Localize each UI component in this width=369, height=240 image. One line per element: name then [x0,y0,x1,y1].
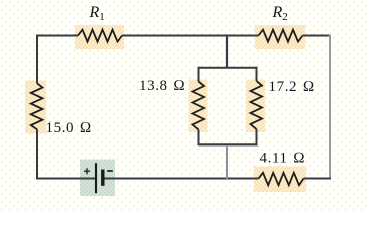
battery short plate (-) [101,170,104,186]
resistor 13.8 ohm [193,82,205,130]
svg-text:13.8 Ω: 13.8 Ω [139,78,185,94]
parallel box left branch lower [198,130,200,146]
highlight box R1 [75,25,124,49]
battery long plate (+) [95,163,97,193]
parallel box right branch upper [256,67,258,81]
wire left lower [36,129,38,179]
parallel box bottom rail [198,143,258,145]
resistor R1 [78,30,122,42]
wire bottom-middle (battery to 4.11) [103,178,259,180]
svg-text:17.2 Ω: 17.2 Ω [269,79,315,95]
wire top-right (R2 to right corner) [303,35,332,37]
resistor 15.0 ohm [31,83,43,129]
highlight box 17.2 ohm [246,80,265,133]
wire top-middle (R1 to R2) [122,35,259,37]
highlight box 4.11 ohm [254,167,306,193]
wire left upper [36,35,38,84]
svg-text:15.0 Ω: 15.0 Ω [46,120,92,136]
parallel box bottom rail shadow [199,145,259,147]
parallel box left branch upper [198,67,200,82]
parallel box right branch lower [256,129,258,145]
parallel box top rail [198,67,258,69]
wire top-left (node a to R1) [36,35,78,37]
highlight box battery [80,160,115,197]
highlight box R2 [255,25,305,49]
wire right side (gray) [329,35,331,180]
wire bottom-left (corner to battery) [36,178,96,180]
highlight box 13.8 ohm [189,80,208,133]
wire center drop (top wire to parallel box) [226,36,228,69]
svg-text:4.11 Ω: 4.11 Ω [260,151,306,167]
battery plus sign [84,168,90,174]
wire bottom-right (4.11 to corner) [304,178,332,180]
battery minus sign [107,170,113,172]
resistor 17.2 ohm [251,81,263,129]
resistor 4.11 ohm [259,173,304,185]
resistor R2 [259,30,303,42]
wire center riser (parallel box to bottom wire, gray) [226,144,228,179]
highlight box 15.0 ohm [25,81,46,134]
